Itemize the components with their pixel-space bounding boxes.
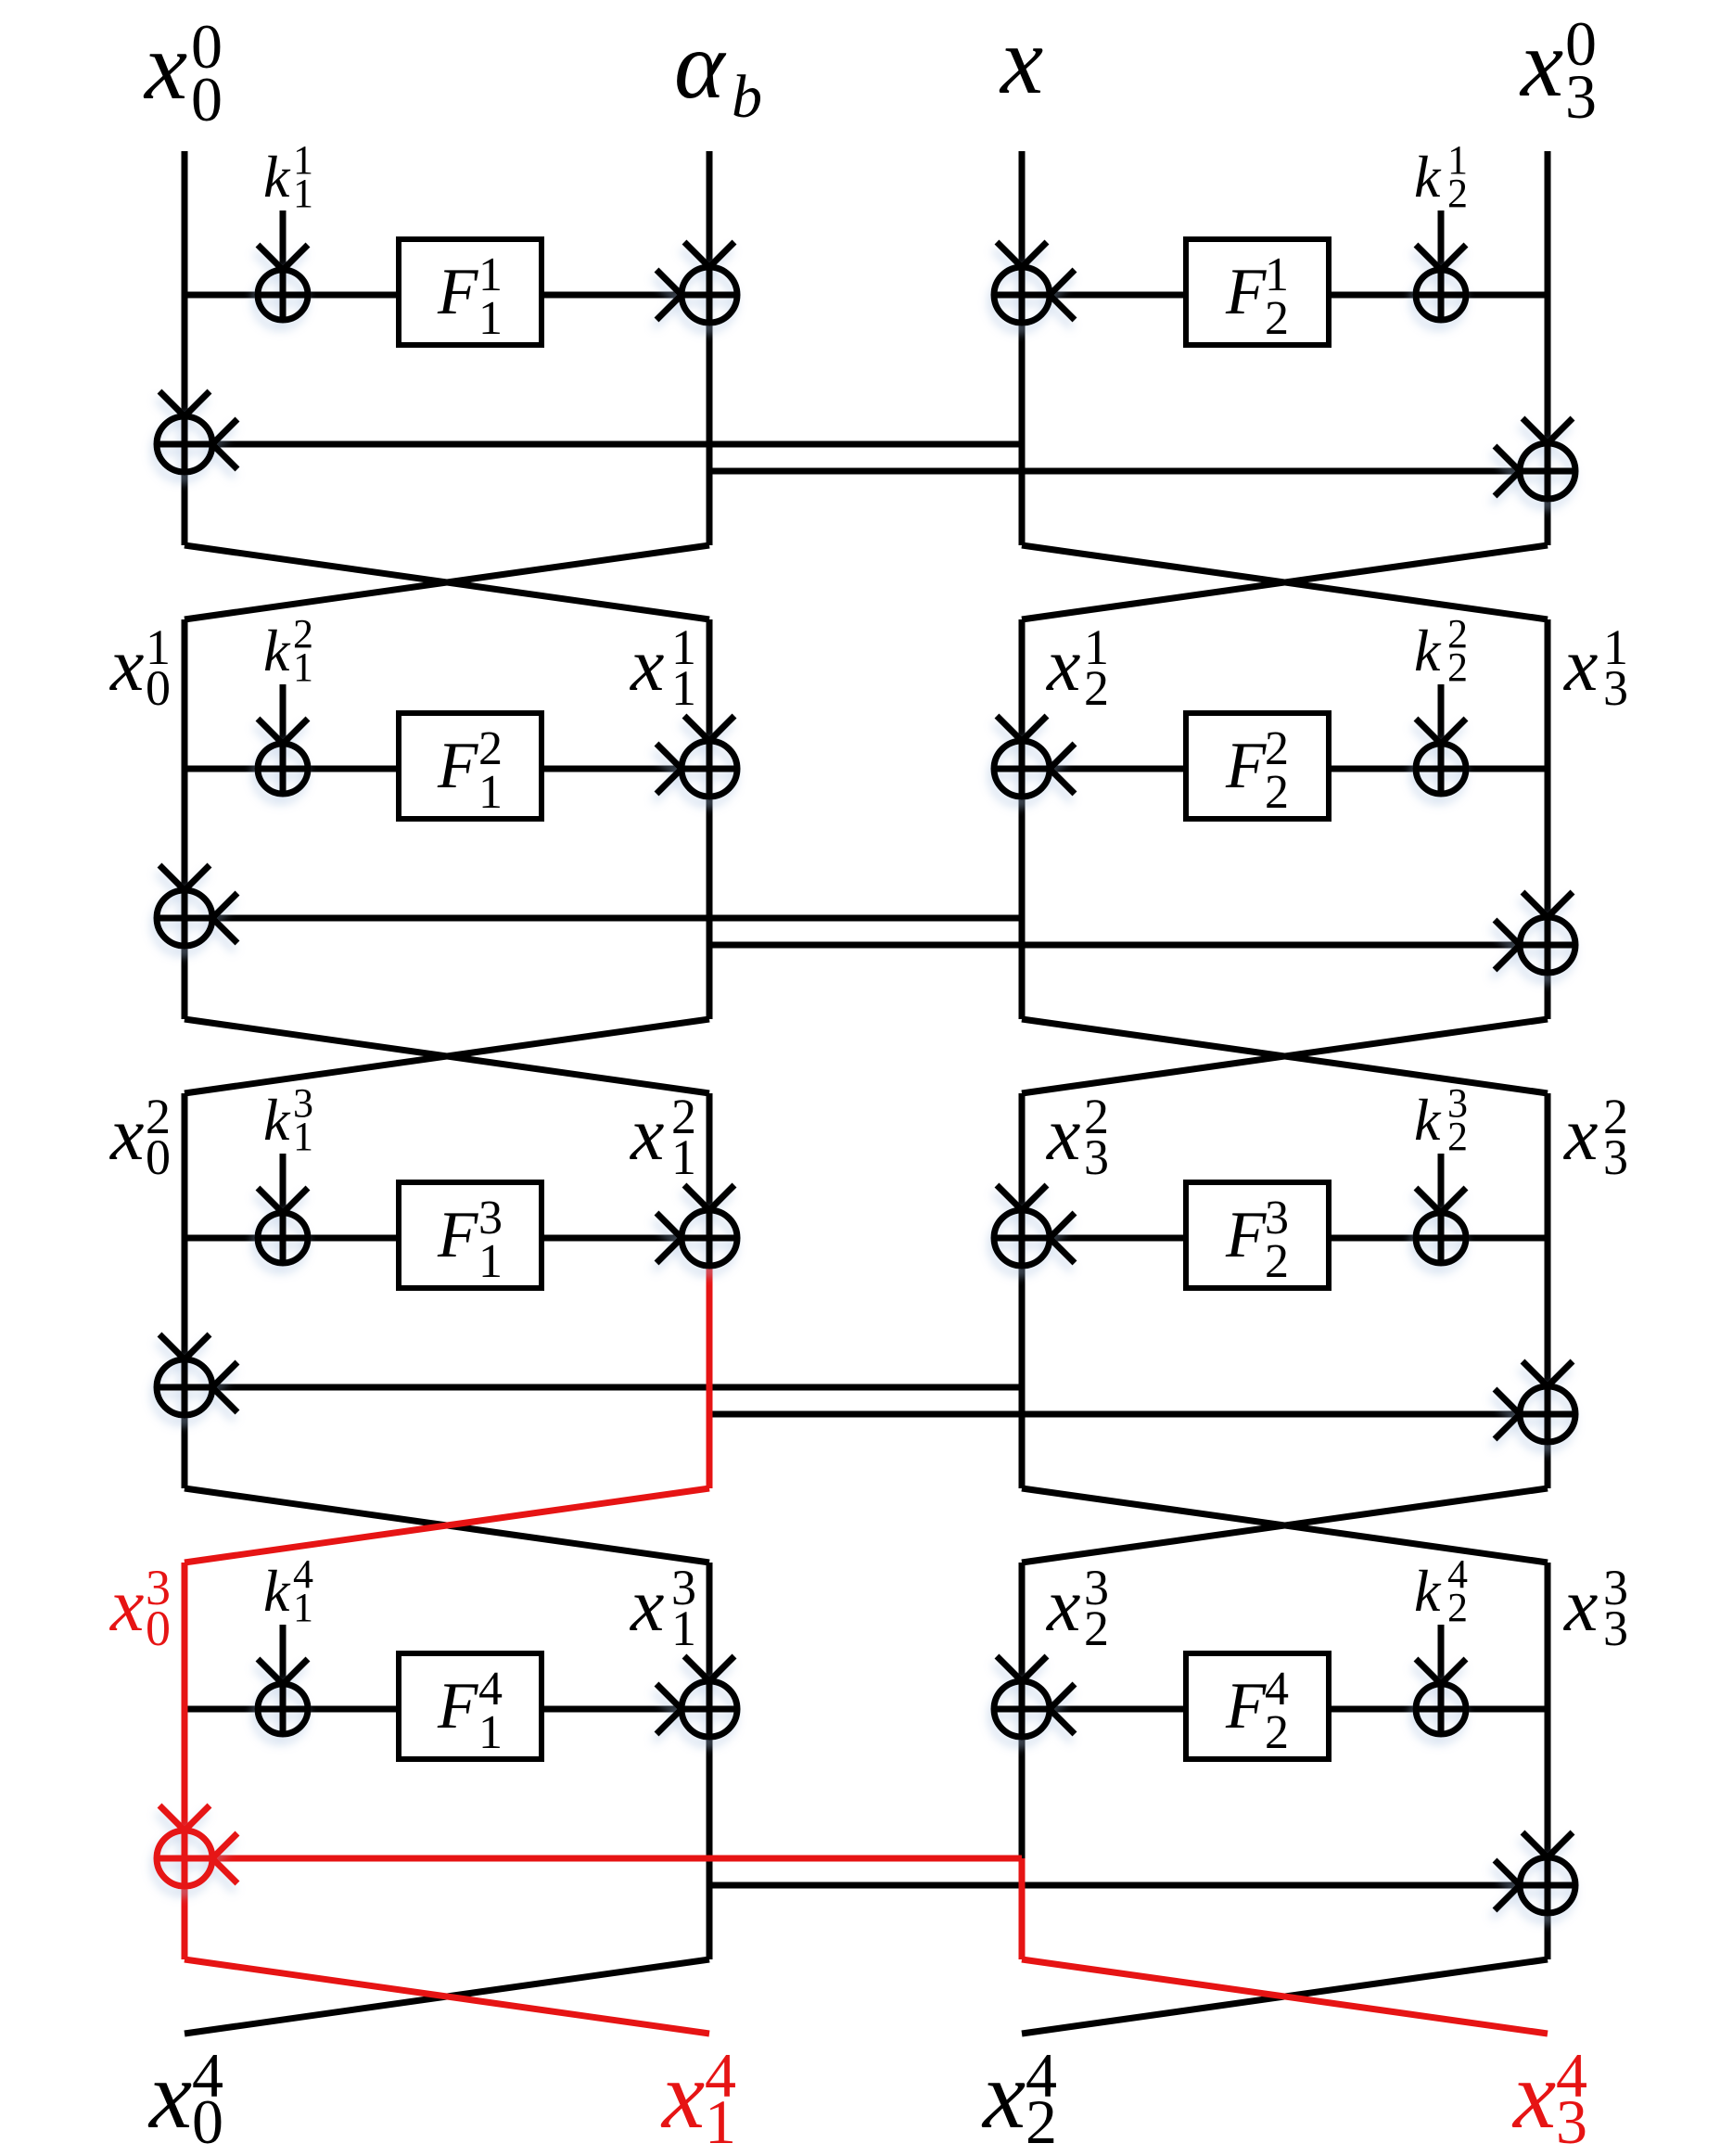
svg-text:k: k: [1414, 1558, 1442, 1624]
svg-text:1: 1: [671, 660, 696, 716]
svg-text:x: x: [1511, 2042, 1556, 2149]
svg-text:x: x: [109, 622, 144, 707]
svg-text:F: F: [1225, 1670, 1267, 1742]
svg-text:x: x: [1563, 622, 1598, 707]
svg-text:3: 3: [1565, 61, 1597, 132]
svg-text:x: x: [630, 622, 664, 707]
svg-text:0: 0: [191, 64, 223, 134]
svg-text:1: 1: [671, 1129, 696, 1185]
svg-text:3: 3: [1603, 660, 1628, 716]
svg-text:k: k: [1414, 618, 1442, 683]
svg-text:2: 2: [1447, 1585, 1468, 1630]
svg-text:k: k: [263, 1087, 291, 1153]
svg-text:x: x: [143, 13, 187, 120]
svg-text:2: 2: [1084, 1601, 1109, 1656]
svg-text:3: 3: [1556, 2086, 1587, 2156]
svg-text:x: x: [109, 1563, 144, 1647]
svg-text:x: x: [1519, 10, 1563, 117]
svg-text:2: 2: [1265, 292, 1289, 345]
svg-text:0: 0: [146, 1129, 171, 1185]
svg-text:1: 1: [478, 1235, 503, 1288]
svg-text:x: x: [1563, 1091, 1598, 1176]
svg-text:x: x: [1046, 1563, 1080, 1647]
svg-text:2: 2: [1447, 1114, 1468, 1159]
svg-text:0: 0: [146, 1601, 171, 1656]
svg-text:x: x: [630, 1091, 664, 1176]
svg-text:k: k: [1414, 144, 1442, 210]
svg-text:1: 1: [293, 644, 313, 690]
svg-text:1: 1: [293, 1114, 313, 1159]
svg-text:1: 1: [705, 2086, 736, 2156]
svg-text:k: k: [1414, 1087, 1442, 1153]
svg-text:x: x: [1046, 1091, 1080, 1176]
svg-text:1: 1: [478, 766, 503, 819]
svg-text:0: 0: [146, 660, 171, 716]
svg-text:F: F: [1225, 730, 1267, 802]
svg-text:x: x: [981, 2042, 1026, 2149]
svg-text:1: 1: [293, 1585, 313, 1630]
svg-text:2: 2: [1084, 660, 1109, 716]
svg-text:3: 3: [1603, 1601, 1628, 1656]
svg-text:F: F: [437, 1199, 478, 1271]
svg-text:x: x: [147, 2042, 192, 2149]
svg-text:F: F: [437, 730, 478, 802]
svg-text:2: 2: [1026, 2086, 1057, 2156]
svg-text:k: k: [263, 618, 291, 683]
svg-text:x: x: [630, 1563, 664, 1647]
svg-text:F: F: [1225, 1199, 1267, 1271]
svg-text:F: F: [1225, 256, 1267, 328]
svg-text:3: 3: [1603, 1129, 1628, 1185]
svg-text:F: F: [437, 256, 478, 328]
svg-text:1: 1: [671, 1601, 696, 1656]
svg-text:k: k: [263, 1558, 291, 1624]
svg-text:k: k: [263, 144, 291, 210]
svg-text:1: 1: [293, 171, 313, 216]
svg-text:1: 1: [478, 292, 503, 345]
svg-text:x: x: [660, 2042, 705, 2149]
svg-text:2: 2: [1265, 1706, 1289, 1759]
svg-text:b: b: [732, 63, 762, 131]
svg-text:x: x: [109, 1091, 144, 1176]
svg-text:x: x: [1046, 622, 1080, 707]
svg-text:2: 2: [1265, 1235, 1289, 1288]
svg-text:x: x: [1563, 1563, 1598, 1647]
svg-text:3: 3: [1084, 1129, 1109, 1185]
svg-text:2: 2: [1265, 766, 1289, 819]
svg-text:2: 2: [1447, 644, 1468, 690]
svg-text:0: 0: [192, 2086, 223, 2156]
svg-text:2: 2: [1447, 171, 1468, 216]
svg-text:1: 1: [478, 1706, 503, 1759]
svg-text:α: α: [674, 12, 727, 119]
svg-text:F: F: [437, 1670, 478, 1742]
svg-text:x: x: [999, 7, 1043, 114]
